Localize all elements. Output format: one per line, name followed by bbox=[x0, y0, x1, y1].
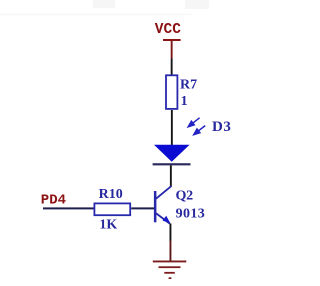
svg-text:1: 1 bbox=[181, 94, 188, 109]
svg-text:PD4: PD4 bbox=[41, 192, 66, 208]
transistor Q2 bbox=[154, 186, 171, 223]
base bar bbox=[154, 191, 157, 222]
D3 arrow 1 bbox=[188, 118, 199, 127]
wire VCC to R7 bbox=[171, 59, 173, 76]
wire D3 to Q2 collector bbox=[170, 165, 172, 187]
D3 cathode bar bbox=[153, 163, 191, 165]
svg-text:VCC: VCC bbox=[155, 22, 181, 38]
wire R7 to D3 bbox=[171, 110, 173, 145]
svg-text:R10: R10 bbox=[99, 187, 123, 202]
svg-text:D3: D3 bbox=[212, 119, 232, 135]
wire to ground (lower maroon) bbox=[170, 241, 172, 262]
emitter arrowhead bbox=[163, 216, 171, 224]
VCC power bar bbox=[163, 39, 181, 41]
ground symbol bbox=[153, 261, 187, 280]
VCC stem wire (red upper) bbox=[171, 41, 173, 59]
wire R10 to Q2 base bbox=[131, 207, 154, 209]
svg-text:R7: R7 bbox=[180, 77, 197, 92]
svg-text:Q2: Q2 bbox=[176, 188, 194, 203]
svg-text:9013: 9013 bbox=[176, 207, 206, 222]
emitter diagonal bbox=[156, 213, 170, 223]
faint scan artifacts top bbox=[0, 14, 192, 16]
svg-text:1K: 1K bbox=[99, 217, 117, 232]
resistor R10 bbox=[94, 203, 130, 215]
wire Q2 emitter to ground (upper black) bbox=[170, 224, 172, 241]
collector diagonal bbox=[156, 186, 171, 199]
resistor R7 bbox=[166, 75, 177, 109]
D3 arrow 2 bbox=[194, 126, 205, 135]
LED D3 triangle bbox=[154, 145, 190, 162]
wire PD4 to R10 bbox=[43, 207, 94, 209]
